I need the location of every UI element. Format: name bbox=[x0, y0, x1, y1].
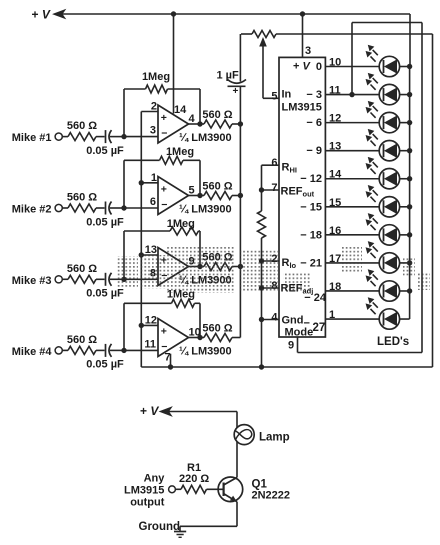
wire LM3915 output row 2 bbox=[325, 94, 379, 96]
wire LM3915 output row 9 bbox=[325, 290, 379, 292]
svg-text:220 Ω: 220 Ω bbox=[179, 473, 209, 485]
wire to - input op-amp ch2 bbox=[124, 207, 158, 209]
wire ground bus bbox=[141, 366, 432, 368]
+V arrowhead top bbox=[54, 10, 66, 19]
svg-text:2N2222: 2N2222 bbox=[252, 490, 291, 502]
svg-text:+: + bbox=[161, 112, 167, 124]
svg-text:LED's: LED's bbox=[377, 336, 409, 348]
svg-text:Lamp: Lamp bbox=[259, 432, 290, 444]
wire output ch4 bbox=[189, 337, 201, 339]
wire feedback right ch3 bbox=[199, 231, 201, 267]
lamp L1 bbox=[234, 425, 254, 445]
resistor 560 ohm input ch3 bbox=[68, 275, 96, 283]
wire pin 6 RHI bbox=[262, 164, 280, 166]
svg-text:12: 12 bbox=[145, 314, 157, 326]
wire pin 7 to ground bus bbox=[170, 354, 172, 367]
emitter Q1 bbox=[224, 494, 237, 502]
wire feedback right ch1 bbox=[199, 89, 201, 124]
node pin 7 ground bbox=[168, 364, 173, 369]
svg-text:−: − bbox=[161, 128, 167, 140]
wire dot-mode wrap pin9 to pin11 top segment bbox=[352, 22, 422, 24]
svg-text:11: 11 bbox=[144, 338, 156, 350]
wire LED D7 anode to bus bbox=[400, 234, 410, 236]
svg-text:0.05 µF: 0.05 µF bbox=[86, 288, 124, 300]
wire LED anode bus vertical bbox=[409, 67, 411, 320]
svg-text:− 9: − 9 bbox=[306, 145, 322, 157]
op-amp U1a 1/4 LM3900 bbox=[158, 105, 189, 143]
svg-text:2: 2 bbox=[151, 101, 157, 113]
emitter arrowhead bbox=[230, 496, 237, 502]
wire Mike #4 to R4a bbox=[62, 349, 68, 351]
node summing bus ch1 bbox=[238, 121, 243, 126]
LED D4 bbox=[366, 130, 399, 161]
svg-text:+ V: + V bbox=[293, 61, 311, 73]
resistor R6 LED current set bbox=[258, 211, 266, 238]
node output junction ch4 bbox=[197, 335, 202, 340]
svg-text:560 Ω: 560 Ω bbox=[67, 334, 97, 346]
node output junction ch3 bbox=[197, 264, 202, 269]
resistor 1Meg feedback ch2 bbox=[160, 156, 184, 164]
node inverting input ch1 bbox=[121, 134, 126, 139]
wire wiper down to In pin 5 bbox=[262, 44, 264, 98]
svg-text:14: 14 bbox=[174, 104, 187, 116]
svg-text:− 6: − 6 bbox=[306, 117, 322, 129]
capacitor 0.05 uF ch3 bbox=[105, 273, 107, 286]
wire cap to summing node bbox=[110, 136, 124, 138]
wire to - input op-amp ch4 bbox=[124, 349, 158, 351]
node inverting input ch2 bbox=[121, 205, 126, 210]
wire LED D9 anode to bus bbox=[400, 290, 410, 292]
transistor Q1 2N2222 bbox=[218, 477, 243, 502]
svg-text:LM3915: LM3915 bbox=[124, 484, 164, 496]
resistor 1Meg feedback ch1 bbox=[146, 85, 168, 93]
wire pin 2 Rlo bbox=[262, 260, 280, 262]
svg-text:− 18: − 18 bbox=[300, 229, 322, 241]
svg-text:+: + bbox=[233, 86, 239, 97]
wire LM3915 output row 5 bbox=[325, 178, 379, 180]
svg-text:6: 6 bbox=[150, 196, 156, 208]
svg-text:6: 6 bbox=[271, 157, 277, 169]
wire cap to summing node bbox=[110, 278, 124, 280]
node output junction ch1 bbox=[197, 121, 202, 126]
svg-text:Ground: Ground bbox=[139, 521, 181, 533]
wire LED D4 anode to bus bbox=[400, 150, 410, 152]
svg-text:0.05 µF: 0.05 µF bbox=[86, 359, 124, 371]
capacitor 0.05 uF ch2 bbox=[105, 202, 107, 215]
resistor 560 ohm output ch2 bbox=[204, 192, 232, 200]
wire output ch1 bbox=[189, 123, 201, 125]
wire LM3915 output row 3 bbox=[325, 122, 379, 124]
op-amp U1b 1/4 LM3900 bbox=[158, 177, 189, 215]
wire + input ch1 bbox=[141, 111, 158, 113]
wire to coupling cap bbox=[96, 207, 105, 209]
svg-text:Gnd: Gnd bbox=[282, 315, 304, 327]
node LED bus row 2 bbox=[407, 92, 412, 97]
wire to - input op-amp ch1 bbox=[124, 136, 158, 138]
capacitor 0.05 uF ch1 bbox=[105, 130, 107, 143]
wire feedback right ch4 bbox=[199, 303, 201, 337]
svg-text:5: 5 bbox=[271, 90, 277, 102]
svg-text:0.05 µF: 0.05 µF bbox=[86, 145, 124, 157]
svg-text:Mike #1: Mike #1 bbox=[12, 132, 52, 144]
wire pin 8 REFadj bbox=[262, 287, 280, 289]
wire LM3915 output row 10 bbox=[325, 318, 379, 320]
wire emitter down bbox=[236, 502, 238, 527]
resistor 560 ohm input ch4 bbox=[68, 346, 96, 354]
wire + input chain vertical bbox=[140, 112, 142, 368]
svg-text:1: 1 bbox=[151, 172, 157, 184]
svg-text:+ V: + V bbox=[32, 8, 51, 22]
wire to summing bus ch4 bbox=[232, 337, 240, 339]
resistor 560 ohm output ch4 bbox=[204, 334, 232, 342]
potentiometer level control bbox=[241, 33, 252, 35]
svg-text:¼ LM3900: ¼ LM3900 bbox=[179, 204, 232, 216]
node pin 11 wrap junction bbox=[349, 92, 354, 97]
wire feedback left ch2 bbox=[123, 160, 125, 208]
wire LM3915 output row 7 bbox=[325, 234, 379, 236]
wire R6 bottom to ground chain bbox=[261, 238, 263, 367]
svg-text:Any: Any bbox=[144, 473, 166, 485]
svg-text:+ V: + V bbox=[140, 404, 159, 418]
svg-text:¼ LM3900: ¼ LM3900 bbox=[179, 132, 232, 144]
LED D5 bbox=[366, 158, 399, 189]
resistor 560 ohm input ch2 bbox=[68, 204, 96, 212]
wire feedback left ch3 bbox=[123, 231, 125, 279]
wire into pin 5 In bbox=[263, 97, 279, 99]
resistor 1Meg feedback ch3 bbox=[170, 227, 199, 235]
node REFout junction bbox=[259, 187, 264, 192]
node inverting input ch3 bbox=[121, 277, 126, 282]
LED D10 bbox=[366, 298, 399, 329]
wire + input ch2 bbox=[141, 182, 158, 184]
wire +V top bus bbox=[63, 13, 411, 15]
svg-text:560 Ω: 560 Ω bbox=[67, 120, 97, 132]
wire LED D8 anode to bus bbox=[400, 262, 410, 264]
input terminal any LM3915 output bbox=[169, 486, 176, 493]
svg-text:560 Ω: 560 Ω bbox=[67, 263, 97, 275]
wire pin 4 Gnd bbox=[262, 319, 280, 321]
wire LM3915 output row 6 bbox=[325, 206, 379, 208]
LED D3 bbox=[366, 102, 399, 133]
wire to coupling cap bbox=[96, 278, 105, 280]
node +V to LM3915 pin 3 bbox=[300, 11, 305, 16]
wire LM3915 output row 8 bbox=[325, 262, 379, 264]
svg-text:Mike #3: Mike #3 bbox=[12, 275, 52, 287]
svg-text:3: 3 bbox=[150, 125, 156, 137]
wire R1 to base bbox=[207, 488, 224, 490]
wire cap to summing node bbox=[110, 349, 124, 351]
wire to summing bus ch1 bbox=[232, 123, 240, 125]
node + input ch3 bbox=[139, 252, 144, 257]
svg-text:560 Ω: 560 Ω bbox=[202, 181, 232, 193]
node + input ch2 bbox=[139, 180, 144, 185]
wire to - input op-amp ch3 bbox=[124, 278, 158, 280]
wire output ch2 bbox=[189, 195, 201, 197]
capacitor 0.05 uF ch4 bbox=[105, 344, 107, 357]
svg-text:0.05 µF: 0.05 µF bbox=[86, 216, 124, 228]
svg-text:13: 13 bbox=[145, 244, 157, 256]
resistor 560 ohm output ch1 bbox=[204, 120, 232, 128]
microphone input terminal Mike #2 bbox=[55, 204, 62, 211]
node LED bus row 7 bbox=[407, 232, 412, 237]
svg-text:Mike #2: Mike #2 bbox=[12, 204, 52, 216]
node LED bus row 3 bbox=[407, 120, 412, 125]
capacitor C5 1uF coupling bbox=[228, 80, 247, 84]
node +V to op-amp pin 14 bbox=[171, 11, 176, 16]
svg-text:− 12: − 12 bbox=[300, 173, 322, 185]
wire to coupling cap bbox=[96, 136, 105, 138]
wire summing bus vertical bbox=[239, 86, 241, 337]
wire pin 7 REFout bbox=[262, 189, 280, 191]
wire Mike #2 to R2a bbox=[62, 207, 68, 209]
resistor 560 ohm output ch3 bbox=[204, 263, 232, 271]
svg-text:LM3915: LM3915 bbox=[282, 102, 322, 114]
svg-text:4: 4 bbox=[271, 312, 278, 324]
node inverting input ch4 bbox=[121, 348, 126, 353]
svg-text:+: + bbox=[161, 184, 167, 196]
node summing bus ch3 bbox=[238, 264, 243, 269]
svg-text:Rlo: Rlo bbox=[282, 257, 297, 270]
svg-text:7: 7 bbox=[271, 182, 277, 194]
resistor R1 220 ohm bbox=[181, 485, 207, 493]
wire down to lamp and collector bbox=[236, 412, 238, 478]
ground symbol bbox=[179, 526, 181, 531]
resistor 560 ohm input ch1 bbox=[68, 133, 96, 141]
resistor 1Meg feedback ch4 bbox=[172, 299, 195, 307]
+V arrowhead bottom bbox=[160, 407, 172, 416]
svg-text:1 µF: 1 µF bbox=[217, 70, 240, 82]
wire RHI to REFout bbox=[261, 165, 263, 190]
svg-text:Q1: Q1 bbox=[252, 478, 268, 490]
node summing bus ch2 bbox=[238, 193, 243, 198]
wire LED D3 anode to bus bbox=[400, 122, 410, 124]
LED D8 bbox=[366, 242, 399, 273]
op-amp U1d 1/4 LM3900 bbox=[158, 319, 189, 357]
LED D6 bbox=[366, 186, 399, 217]
node LED bus row 4 bbox=[407, 148, 412, 153]
node REF chain ground bbox=[259, 364, 264, 369]
svg-text:560 Ω: 560 Ω bbox=[202, 109, 232, 121]
collector Q1 bbox=[224, 477, 238, 485]
svg-text:560 Ω: 560 Ω bbox=[67, 192, 97, 204]
microphone input terminal Mike #1 bbox=[55, 133, 62, 140]
svg-text:−: − bbox=[304, 318, 310, 330]
wire to summing bus ch2 bbox=[232, 195, 240, 197]
wire Mike #1 to R1a bbox=[62, 136, 68, 138]
svg-text:output: output bbox=[130, 496, 165, 508]
svg-text:+: + bbox=[161, 326, 167, 338]
wire feedback left ch1 bbox=[123, 89, 125, 137]
node Gnd junction bbox=[259, 317, 264, 322]
wire feedback left ch4 bbox=[123, 303, 125, 350]
wire pin 9 Mode down and right bbox=[297, 337, 299, 353]
wire LED D10 anode to bus bbox=[400, 318, 410, 320]
node Rlo junction bbox=[259, 258, 264, 263]
svg-text:− 24: − 24 bbox=[304, 292, 327, 304]
wire feedback right ch2 bbox=[199, 160, 201, 195]
wire cap to summing node bbox=[110, 207, 124, 209]
svg-text:− 15: − 15 bbox=[300, 201, 322, 213]
node REFadj junction bbox=[259, 285, 264, 290]
wire to coupling cap bbox=[96, 349, 105, 351]
wire wrap down to pin 11 LED node bbox=[351, 23, 353, 95]
wire LM3915 output row 4 bbox=[325, 150, 379, 152]
LED D9 bbox=[366, 270, 399, 301]
svg-text:0: 0 bbox=[316, 61, 322, 73]
microphone input terminal Mike #4 bbox=[55, 347, 62, 354]
wire +V down to LED anode bus bbox=[409, 14, 411, 67]
svg-text:1Meg: 1Meg bbox=[142, 71, 170, 83]
wire + input ch4 bbox=[141, 324, 158, 326]
node + input ch4 bbox=[139, 323, 144, 328]
LED D1 bbox=[366, 45, 399, 76]
wire to summing bus ch3 bbox=[232, 266, 240, 268]
LED D7 bbox=[366, 214, 399, 245]
svg-text:REFout: REFout bbox=[281, 186, 315, 199]
wire +V down to pin 14 of U1a bbox=[173, 14, 175, 114]
potentiometer wiper arrow bbox=[259, 37, 267, 47]
svg-text:Mike #4: Mike #4 bbox=[12, 346, 53, 358]
svg-text:560 Ω: 560 Ω bbox=[202, 323, 232, 335]
wire terminal to R1 bbox=[175, 488, 181, 490]
svg-text:− 3: − 3 bbox=[306, 89, 322, 101]
wire LED D5 anode to bus bbox=[400, 178, 410, 180]
wire LM3915 output row 1 bbox=[325, 66, 379, 68]
LED D2 bbox=[366, 74, 399, 105]
node output junction ch2 bbox=[197, 193, 202, 198]
wire pot left end down to C5 bbox=[239, 34, 241, 82]
wire LED D6 anode to bus bbox=[400, 206, 410, 208]
node LED bus row 8 bbox=[407, 260, 412, 265]
wire +V bottom bbox=[169, 411, 237, 413]
wire + input ch3 bbox=[141, 254, 158, 256]
node LED bus row 6 bbox=[407, 204, 412, 209]
wire pot right end down to ground bus bbox=[432, 34, 434, 367]
op-amp U1c 1/4 LM3900 bbox=[158, 248, 189, 286]
svg-text:27: 27 bbox=[313, 322, 326, 334]
svg-text:9: 9 bbox=[288, 340, 294, 352]
IC U5 LM3915 outline bbox=[279, 57, 325, 337]
wire +V down to pin 3 of LM3915 bbox=[302, 14, 304, 57]
wire REFout to R6 bbox=[261, 190, 263, 211]
svg-text:−: − bbox=[161, 199, 167, 211]
wire Mike #3 to R3a bbox=[62, 278, 68, 280]
svg-text:RHI: RHI bbox=[282, 162, 297, 175]
base bar Q1 bbox=[223, 483, 225, 497]
svg-text:In: In bbox=[282, 89, 292, 101]
svg-text:¼ LM3900: ¼ LM3900 bbox=[179, 346, 232, 358]
microphone input terminal Mike #3 bbox=[55, 276, 62, 283]
wire emitter to ground bbox=[180, 525, 237, 527]
node LED bus row 9 bbox=[407, 288, 412, 293]
svg-text:1Meg: 1Meg bbox=[166, 146, 194, 158]
wire output ch3 bbox=[189, 266, 201, 268]
node LED bus row 5 bbox=[407, 176, 412, 181]
wire LED D2 anode to bus bbox=[400, 94, 410, 96]
svg-text:− 21: − 21 bbox=[300, 257, 322, 269]
svg-text:3: 3 bbox=[305, 45, 311, 57]
wire LED D1 anode to bus bbox=[400, 66, 410, 68]
wire wrap right vertical to pin 9 bbox=[421, 23, 423, 353]
node LED bus row 1 bbox=[407, 64, 412, 69]
svg-text:1Meg: 1Meg bbox=[167, 218, 195, 230]
